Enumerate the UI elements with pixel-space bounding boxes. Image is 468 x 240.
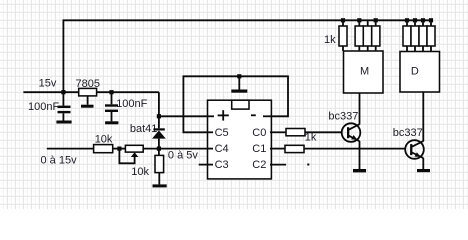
svg-text:C5: C5 bbox=[215, 127, 229, 139]
svg-text:10k: 10k bbox=[95, 134, 113, 146]
svg-text:C2: C2 bbox=[252, 159, 266, 171]
svg-text:0 à 5v: 0 à 5v bbox=[168, 149, 198, 161]
svg-text:1k: 1k bbox=[305, 131, 317, 143]
svg-text:0 à 15v: 0 à 15v bbox=[41, 154, 78, 166]
svg-text:10k: 10k bbox=[131, 166, 149, 178]
svg-text:C3: C3 bbox=[215, 159, 229, 171]
svg-text:C4: C4 bbox=[215, 143, 229, 155]
svg-text:15v: 15v bbox=[39, 77, 57, 89]
svg-text:100nF: 100nF bbox=[116, 98, 147, 110]
svg-text:bc337: bc337 bbox=[393, 127, 423, 139]
svg-text:bc337: bc337 bbox=[328, 111, 358, 123]
svg-text:7805: 7805 bbox=[76, 78, 100, 90]
svg-text:1k: 1k bbox=[324, 34, 336, 46]
svg-text:D: D bbox=[411, 65, 419, 77]
svg-text:C0: C0 bbox=[252, 127, 266, 139]
svg-text:C1: C1 bbox=[252, 143, 266, 155]
svg-text:bat41: bat41 bbox=[130, 123, 158, 135]
svg-text:100nF: 100nF bbox=[28, 101, 59, 113]
svg-text:M: M bbox=[360, 65, 369, 77]
